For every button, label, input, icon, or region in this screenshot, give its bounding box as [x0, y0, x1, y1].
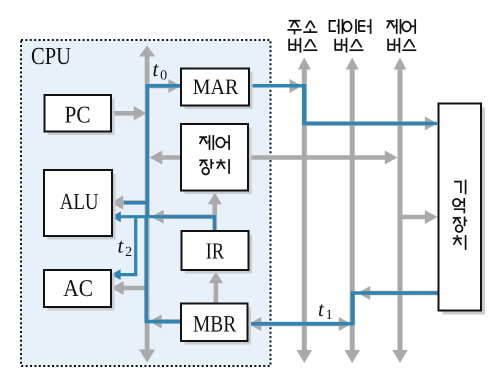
blue arrowhead into ALU [111, 211, 121, 222]
wire IR to internal bus [151, 210, 215, 224]
control unit bidirectional wire to control bus [150, 151, 398, 165]
blue arrowhead into AC [111, 269, 121, 280]
blue path MAR to memory via address bus [249, 84, 437, 123]
wire address bus to memory [306, 117, 438, 131]
arrowhead MAR wire into address bus [290, 79, 303, 93]
svg-text:MAR: MAR [193, 74, 239, 99]
label address bus 주소 버스 [288, 21, 318, 53]
address bus (주소 버스) vertical line [297, 58, 313, 364]
wire internal bus to AC [111, 281, 148, 295]
control bus (제어 버스) vertical line [392, 58, 408, 364]
svg-text:ALU: ALU [60, 189, 99, 214]
CPU internal bus vertical line [139, 46, 155, 363]
data bus (데이터 버스) vertical line [344, 58, 360, 364]
wire control bus to memory [400, 210, 438, 224]
wire PC to internal bus [111, 106, 147, 120]
label control bus 제어 버스 [387, 19, 417, 53]
wire internal bus to MAR [147, 79, 181, 93]
vertical arrow IR to control unit [208, 193, 222, 232]
wire MBR to internal bus [149, 315, 181, 329]
bidirectional wire MBR to data bus [249, 317, 352, 331]
box control unit 제어장치 [181, 124, 252, 194]
label data bus 데이터 버스 [330, 19, 371, 53]
box ALU [44, 170, 116, 240]
svg-text:PC: PC [65, 102, 91, 128]
box memory 기억장치 [439, 104, 486, 315]
box MBR [181, 304, 251, 345]
vertical arrow MBR to IR [209, 272, 223, 304]
svg-text:IR: IR [206, 238, 225, 263]
blue path memory to MBR via data bus (t1) [249, 292, 438, 325]
blue highlighted path: internal bus MBR-to-MAR (t0) [145, 86, 182, 322]
CPU block background and dotted border [21, 40, 271, 366]
box AC [44, 270, 115, 311]
blue path IR to ALU and AC (t2) [115, 217, 214, 275]
svg-text:CPU: CPU [31, 43, 71, 70]
wire memory to data bus [358, 286, 439, 300]
box PC [45, 95, 115, 135]
svg-text:AC: AC [63, 276, 93, 302]
box IR [182, 231, 253, 274]
box MAR [181, 69, 253, 110]
wire internal bus to ALU [111, 196, 149, 210]
svg-text:MBR: MBR [193, 311, 236, 337]
blue overlay on wire internal bus to ALU [124, 201, 148, 204]
